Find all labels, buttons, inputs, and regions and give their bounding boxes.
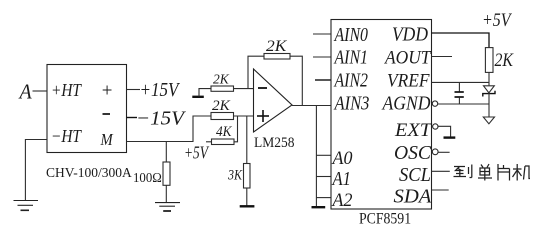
svg-text:+15V: +15V [140,79,181,102]
svg-text:AIN0: AIN0 [334,23,368,45]
AGND pin bubble [432,101,437,106]
wire -HT to ground [25,140,47,201]
wire R2 to op-amp - input [234,88,254,90]
svg-text:2K: 2K [266,37,287,55]
glyph DAN [478,164,492,181]
wire VDD to +5V [432,33,490,48]
zener diode D1 (VREF clamp) [483,86,495,104]
resistor R5 3K [244,164,251,189]
resistor R3 2K (non-inverting input) [211,113,234,120]
wire R4 to + input node [234,116,238,142]
resistor R2 2K (inverting input) [211,86,234,91]
svg-text:CHV-100/300A: CHV-100/300A [46,165,132,180]
wire + node to 3K [246,116,248,164]
svg-text:AOUT: AOUT [383,47,432,68]
wire + pin to +15V [127,89,141,91]
svg-text:SCL: SCL [399,165,431,187]
svg-text:3K: 3K [227,166,243,182]
wire VREF to node [432,81,490,83]
svg-text:SDA: SDA [394,186,433,207]
op-amp U1 LM258 [254,69,293,132]
ground (bar, 2K input) [192,96,204,98]
wire EXT to ground [438,126,451,136]
wire ground to R2 [199,89,211,97]
resistor R1 100ohm [163,162,170,185]
ground (bar, EXT) [444,136,456,138]
ADC U3 PCF8591 box [331,20,433,212]
feedback resistor R6 2K [248,56,264,88]
svg-text:+5V: +5V [482,9,513,31]
wire AIN0 stub [313,33,331,35]
wire 100ohm tap [165,142,167,163]
svg-text:VDD: VDD [392,24,429,46]
wire 3K to ground [246,188,248,206]
wire AIN1 stub [313,56,331,58]
wire +5V to R4 [206,141,212,143]
ground (3-bar under 100ohm) [155,203,180,211]
glyph JI [513,164,531,181]
svg-text:AIN3: AIN3 [334,92,370,114]
svg-text:AIN2: AIN2 [334,69,368,91]
wire AIN2 stub [315,79,331,81]
wire feedback to output [290,56,302,105]
svg-text:M: M [100,131,114,149]
wire A to +HT [33,90,48,92]
svg-text:+: + [101,81,114,102]
resistor R7 2K (VREF pull-up) [485,48,493,73]
wire A1 stub [316,176,331,178]
ground (arrow, analog) [483,117,494,124]
wire R3 to op-amp + input [234,115,254,117]
glyph PIAN [498,164,510,181]
wire A2 stub [316,197,331,199]
svg-text:2K: 2K [495,48,515,70]
label dao-dan-pian-ji (to MCU), hand-drawn CJK glyphs [454,164,531,181]
svg-text:AIN1: AIN1 [334,46,368,68]
svg-text:VREF: VREF [387,70,430,91]
wire 100ohm to ground [165,185,167,202]
ground (power ground, 3-bar) [14,201,39,211]
wire OSC stub [438,151,450,153]
svg-text:A2: A2 [331,189,353,211]
svg-text:AGND: AGND [381,93,431,115]
svg-text:100Ω: 100Ω [133,169,162,185]
wire AOUT stub [432,56,453,58]
wire A0-A2 address bus to ground [315,106,317,207]
hall sensor U2 CHV-100/300A box [47,65,127,153]
resistor R4 4K [212,139,235,145]
svg-text:−HT: −HT [51,126,83,146]
EXT pin bubble [433,124,438,129]
wire A0 stub [316,154,331,156]
ground (bar under address bus) [312,206,326,208]
svg-text:OSC: OSC [394,143,432,164]
ground (bar under 3K) [240,205,255,207]
svg-text:EXT: EXT [394,119,433,141]
svg-text:2K: 2K [212,98,231,114]
wire M pin output [127,116,212,142]
wire AGND to arrow ground [438,103,489,105]
svg-text:+5V: +5V [184,144,210,163]
svg-text:A: A [18,81,33,104]
wire R7 to VREF node [488,72,490,85]
wire op-amp output to AIN3 [292,105,331,107]
svg-text:PCF8591: PCF8591 [359,211,411,228]
wire SCL to MCU [432,170,450,172]
svg-text:A0: A0 [331,147,353,169]
wire SDA to MCU [432,189,449,191]
capacitor C1 (VREF filter) [455,82,464,104]
svg-text:−15V: −15V [136,108,187,129]
svg-text:+HT: +HT [51,80,83,100]
svg-text:2K: 2K [213,71,230,86]
svg-text:A1: A1 [332,168,351,190]
glyph DAO [454,165,472,178]
wire - pin to -15V [127,117,138,119]
svg-text:LM258: LM258 [254,134,294,151]
svg-text:4K: 4K [216,125,232,141]
OSC pin bubble [432,149,438,155]
